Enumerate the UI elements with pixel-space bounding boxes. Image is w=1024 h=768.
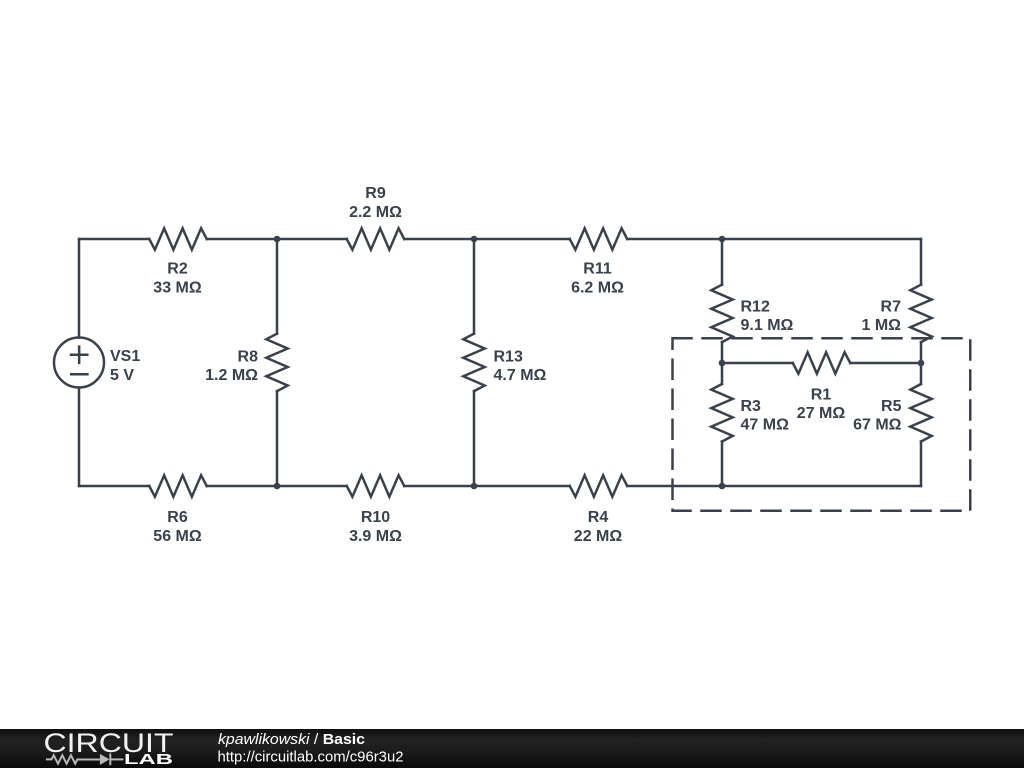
voltage source VS1 bbox=[54, 338, 104, 388]
resistor R9 bbox=[347, 228, 404, 249]
label R10 3.9 M bbox=[349, 509, 402, 545]
CircuitLab logo wordmark CIRCUIT bbox=[44, 728, 174, 758]
resistor R5 (vertical) bbox=[910, 384, 931, 441]
label R2 33 M bbox=[153, 261, 202, 297]
svg-text:kpawlikowski / Basic: kpawlikowski / Basic bbox=[218, 732, 365, 748]
node junction at R11/R12 top bbox=[719, 236, 726, 243]
svg-text:LAB: LAB bbox=[124, 752, 173, 768]
wire column R7/R5 bbox=[920, 239, 923, 486]
svg-text:5 V: 5 V bbox=[110, 367, 134, 384]
wire column R13 bbox=[473, 239, 476, 486]
svg-text:http://circuitlab.com/c96r3u2: http://circuitlab.com/c96r3u2 bbox=[218, 750, 404, 766]
resistor R1 bbox=[793, 352, 851, 373]
resistor R2 bbox=[149, 228, 207, 249]
node junction at R4/R3 bottom bbox=[719, 483, 726, 490]
resistor R13 (vertical) bbox=[463, 334, 484, 391]
footer url bbox=[218, 750, 404, 766]
svg-text:4.7 MΩ: 4.7 MΩ bbox=[494, 367, 547, 384]
label R9 2.2 M bbox=[349, 185, 402, 221]
node junction at R10/R13 bottom bbox=[471, 483, 478, 490]
svg-text:67 MΩ: 67 MΩ bbox=[853, 417, 902, 434]
resistor R12 (vertical) bbox=[711, 285, 732, 342]
resistor R6 bbox=[149, 475, 207, 496]
label R4 22 M bbox=[574, 509, 623, 545]
svg-text:22 MΩ: 22 MΩ bbox=[574, 528, 623, 545]
node junction at R12/R3/R1 bbox=[719, 360, 726, 367]
label R12 9.1 M bbox=[741, 299, 794, 335]
svg-text:2.2 MΩ: 2.2 MΩ bbox=[349, 204, 402, 221]
label R1 27 M bbox=[797, 387, 846, 423]
resistor R7 (vertical) bbox=[910, 285, 931, 342]
label R7 1 M bbox=[862, 299, 902, 335]
svg-text:R5: R5 bbox=[881, 398, 902, 415]
svg-text:27 MΩ: 27 MΩ bbox=[797, 405, 846, 422]
svg-text:R2: R2 bbox=[167, 261, 188, 278]
label R5 67 M bbox=[853, 398, 902, 434]
wire column R12/R3 bbox=[721, 239, 724, 486]
node junction at R2/R8 top bbox=[274, 236, 281, 243]
svg-text:R7: R7 bbox=[881, 299, 902, 316]
svg-text:R13: R13 bbox=[494, 349, 523, 366]
svg-text:56 MΩ: 56 MΩ bbox=[153, 528, 202, 545]
resistor R11 bbox=[570, 228, 628, 249]
resistor R10 bbox=[347, 475, 404, 496]
svg-text:R9: R9 bbox=[365, 185, 386, 202]
svg-text:33 MΩ: 33 MΩ bbox=[153, 280, 202, 297]
svg-text:R1: R1 bbox=[811, 387, 832, 404]
svg-text:1 MΩ: 1 MΩ bbox=[862, 317, 902, 334]
svg-text:1.2 MΩ: 1.2 MΩ bbox=[205, 367, 258, 384]
node junction at R7/R5/R1 bbox=[918, 360, 925, 367]
label R13 4.7 M bbox=[494, 349, 547, 385]
wire top rail segments bbox=[79, 238, 921, 241]
CircuitLab logo wordmark LAB bbox=[124, 752, 173, 768]
label R3 47 M bbox=[741, 398, 790, 434]
svg-text:VS1: VS1 bbox=[110, 348, 140, 365]
node junction at R9/R13 top bbox=[471, 236, 478, 243]
wire middle rail (R1 row) bbox=[722, 362, 921, 365]
label VS1 5 V bbox=[110, 348, 140, 384]
svg-text:R4: R4 bbox=[588, 509, 609, 526]
svg-text:R8: R8 bbox=[238, 349, 259, 366]
svg-text:6.2 MΩ: 6.2 MΩ bbox=[571, 280, 624, 297]
wire column R8 bbox=[276, 239, 279, 486]
svg-text:R10: R10 bbox=[361, 509, 390, 526]
label R11 6.2 M bbox=[571, 261, 624, 297]
svg-text:9.1 MΩ: 9.1 MΩ bbox=[741, 317, 794, 334]
svg-text:R3: R3 bbox=[741, 398, 762, 415]
svg-text:47 MΩ: 47 MΩ bbox=[741, 417, 790, 434]
svg-text:R11: R11 bbox=[583, 261, 612, 278]
svg-text:R12: R12 bbox=[741, 299, 770, 316]
svg-text:3.9 MΩ: 3.9 MΩ bbox=[349, 528, 402, 545]
dashed highlight box bbox=[673, 338, 971, 511]
wire left column bbox=[78, 239, 81, 486]
node junction at R6/R8 bottom bbox=[274, 483, 281, 490]
footer title kpawlikowski / Basic bbox=[218, 732, 365, 748]
resistor R4 bbox=[570, 475, 628, 496]
label R8 1.2 M bbox=[205, 349, 258, 385]
CircuitLab logo resistor-diode squiggle bbox=[46, 754, 124, 766]
resistor R8 (vertical) bbox=[266, 334, 287, 391]
svg-text:R6: R6 bbox=[167, 509, 188, 526]
resistor R3 (vertical) bbox=[711, 384, 732, 441]
label R6 56 M bbox=[153, 509, 202, 545]
wire bottom rail segments bbox=[79, 485, 921, 488]
